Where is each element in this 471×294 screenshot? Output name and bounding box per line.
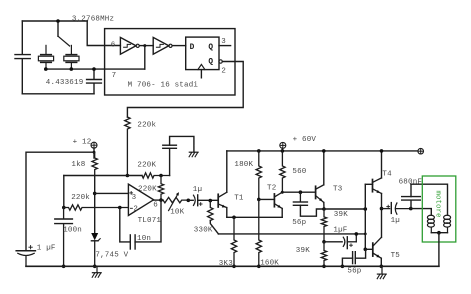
flip-flop U2: [186, 37, 219, 70]
wire T2 base: [259, 198, 275, 200]
inductor coil right: [444, 215, 451, 232]
wire T5 emitter drop: [380, 258, 382, 266]
crystal X2: [64, 45, 79, 69]
capacitor 100n: [55, 208, 73, 267]
node 3K3 ground rail: [232, 265, 236, 269]
svg-text:180K: 180K: [234, 161, 253, 169]
transistor T4: [373, 178, 382, 194]
label T1: [234, 194, 244, 202]
svg-text:+ 60V: + 60V: [293, 136, 317, 144]
label pin 3: [221, 38, 226, 46]
capacitor 56p first: [293, 192, 324, 216]
supply terminal +12: [91, 142, 97, 158]
svg-text:7: 7: [112, 72, 117, 80]
node T4 base leg tap: [364, 207, 368, 211]
node T5 base: [364, 248, 368, 252]
svg-text:+ 12: + 12: [73, 138, 92, 146]
label 160K: [260, 259, 279, 267]
label T5: [391, 252, 401, 260]
wire coil bottoms join: [431, 232, 447, 234]
resistor 220K feedback horizontal: [142, 173, 170, 178]
label 10K: [170, 209, 184, 217]
resistor 39K first: [321, 209, 326, 242]
svg-text:T2: T2: [267, 185, 276, 193]
resistor 3K3: [231, 217, 236, 266]
label 10n: [137, 235, 151, 243]
label + 60V: [293, 136, 317, 144]
node B feedback: [159, 174, 163, 178]
label D: [190, 44, 195, 52]
wire switch pole drop: [57, 21, 59, 36]
wire emitter node to T4 base leg: [324, 208, 365, 210]
wire 680nF top to coil R: [411, 184, 448, 215]
wire T3 emitter drop: [323, 203, 325, 210]
inverter U1a: [120, 37, 139, 54]
label 100n: [63, 227, 82, 235]
label 1u output: [391, 217, 400, 225]
label 39K first: [334, 211, 348, 219]
resistor 1k8: [92, 152, 97, 175]
wire ground rail: [26, 265, 439, 267]
svg-text:680nF: 680nF: [399, 178, 423, 186]
label motore: [434, 190, 442, 217]
svg-text:39K: 39K: [296, 247, 310, 255]
svg-text:6: 6: [111, 41, 116, 49]
wire T2 emitter drop: [281, 209, 283, 218]
svg-text:1k8: 1k8: [71, 161, 85, 169]
svg-text:1 µF: 1 µF: [37, 244, 56, 252]
node 100n ground rail: [62, 265, 66, 269]
label T4: [382, 171, 392, 179]
opamp plus mark: [130, 192, 133, 195]
label 220k upper: [137, 121, 156, 129]
wire emitter bus T1-T2: [227, 216, 282, 218]
flip-flop clock triangle: [198, 64, 205, 69]
svg-text:3,2768MHz: 3,2768MHz: [72, 15, 114, 23]
wire node A: [64, 175, 142, 177]
resistor 220k from FF: [125, 117, 130, 176]
capacitor 56p second: [342, 249, 365, 266]
wire T1 emitter drop: [226, 208, 228, 218]
svg-text:10K: 10K: [170, 209, 184, 217]
wire T2 collector to T3 base: [282, 191, 315, 193]
node crystal X2 bottom: [70, 67, 74, 71]
wire capacitor C1 to bottom: [21, 59, 23, 94]
transistor T5: [373, 237, 382, 258]
wire pin6 feed: [87, 21, 120, 46]
wire feedback to pin7 bus: [144, 46, 146, 70]
output terminal: [418, 148, 424, 154]
svg-text:T1: T1: [234, 194, 244, 202]
capacitor 1u output: [382, 203, 411, 215]
green motor box: [422, 176, 456, 242]
resistor 180K: [256, 151, 261, 200]
label pin 2: [221, 67, 226, 75]
node +12 branch: [93, 151, 96, 154]
svg-text:3: 3: [132, 194, 137, 202]
label TL071: [138, 217, 162, 225]
svg-text:1µ: 1µ: [391, 217, 400, 225]
node 39K ground rail: [322, 265, 326, 269]
node zener ground rail: [93, 265, 97, 269]
svg-text:56p: 56p: [347, 267, 361, 275]
node feedback junction: [143, 44, 146, 47]
label 1 uF: [37, 244, 56, 252]
capacitor 1uF bootstrap: [324, 234, 356, 249]
transistor T2: [274, 192, 282, 208]
label 1u coupling: [193, 186, 202, 194]
node T2 collector: [281, 191, 284, 194]
svg-text:220k: 220k: [71, 194, 90, 202]
node +input ref: [93, 192, 97, 196]
node 56p tap: [299, 190, 303, 194]
resistor 220K feedback vertical: [158, 176, 163, 201]
label 3K3: [219, 260, 233, 268]
node 560 rail tap: [281, 149, 285, 153]
svg-text:3: 3: [221, 38, 226, 46]
svg-text:TL071: TL071: [138, 217, 162, 225]
pot wiper arrow: [169, 192, 179, 210]
svg-text:2: 2: [133, 206, 138, 214]
supply rail +60V: [227, 150, 418, 152]
node 1uF bootstrap tap: [322, 240, 326, 244]
svg-text:220K: 220K: [137, 161, 156, 169]
node 160K ground rail: [257, 265, 261, 269]
resistor 220k lower: [64, 205, 129, 210]
wire coil junction to ground rail: [438, 233, 440, 267]
wire node A down-leg: [63, 176, 65, 208]
wire opamp output: [154, 199, 163, 201]
wire T4 collector to rail: [381, 151, 383, 178]
node switch pole: [56, 19, 60, 23]
svg-text:M 706- 16 stadi: M 706- 16 stadi: [128, 81, 199, 89]
wire T3 collector to rail: [323, 151, 325, 185]
node pot out: [187, 199, 191, 203]
node output cap tap: [380, 207, 384, 211]
label opamp pin 2: [133, 206, 138, 214]
node cap C2 tap: [92, 67, 96, 71]
node 180K rail tap: [257, 149, 261, 153]
node 220k to node A: [126, 174, 130, 178]
svg-text:1µF: 1µF: [333, 226, 347, 234]
ground at T5: [377, 266, 386, 278]
capacitor 10n loop: [120, 200, 161, 249]
label Qbar: [208, 59, 213, 67]
label 56p first: [292, 219, 306, 227]
wire U1b to D input: [172, 45, 186, 47]
resistor 160K: [256, 199, 261, 266]
zener D1: [91, 233, 100, 266]
label + 12: [73, 138, 92, 146]
wire T4 base leg: [364, 184, 366, 249]
label pin 6: [111, 41, 116, 49]
node minus input left: [62, 206, 66, 210]
label opamp pin 6: [153, 201, 158, 209]
opamp minus mark: [130, 207, 132, 209]
label 330K: [194, 226, 213, 234]
ground mid: [92, 266, 101, 277]
wire U1a to U1b: [139, 45, 153, 47]
label 220K feedback v: [138, 185, 157, 193]
svg-text:100n: 100n: [63, 227, 82, 235]
resistor 39K second: [321, 242, 326, 266]
capacitor C2 on pin7 bus: [87, 69, 102, 94]
inverter U1b: [153, 37, 172, 54]
label 560: [292, 168, 306, 176]
label 4.433619: [46, 79, 84, 87]
transistor T3: [316, 185, 324, 203]
label 56p second: [347, 267, 361, 275]
capacitor comp to ground: [163, 136, 194, 175]
wire oscillator bottom: [22, 93, 94, 95]
label Q: [208, 44, 213, 52]
ground near comp cap: [189, 152, 198, 157]
capacitor 680nF: [402, 184, 421, 208]
node 680nF tap: [409, 207, 413, 211]
node T3 collector rail tap: [322, 149, 326, 153]
node T4 rail tap: [380, 149, 384, 153]
label 1k8: [71, 161, 85, 169]
label 220k lower: [71, 194, 90, 202]
svg-text:T4: T4: [382, 171, 392, 179]
svg-text:7,745 V: 7,745 V: [95, 252, 128, 260]
node bootstrap rail tap: [355, 232, 359, 236]
wire left vertical to capacitor: [21, 21, 23, 54]
capacitor C1 left: [15, 55, 30, 59]
node coil junction: [437, 231, 441, 235]
wire bias rail: [218, 233, 365, 235]
svg-text:560: 560: [292, 168, 306, 176]
wire +12 to reservoir cap: [26, 152, 94, 250]
svg-text:1µ: 1µ: [193, 186, 202, 194]
label 680nF: [399, 178, 423, 186]
label 39K second: [296, 247, 310, 255]
crystal X1: [38, 45, 53, 69]
label T3: [333, 185, 343, 193]
node output junction: [159, 198, 163, 202]
inductor coil left: [427, 215, 434, 232]
svg-text:10n: 10n: [137, 235, 151, 243]
label pin 7: [112, 72, 117, 80]
supply terminal +60V: [280, 142, 286, 151]
svg-text:Q: Q: [208, 59, 213, 67]
transistor T1: [218, 192, 227, 207]
pin 2 bubble: [219, 60, 222, 63]
svg-text:T5: T5: [391, 252, 401, 260]
svg-text:motore: motore: [434, 190, 442, 217]
label 1uF bootstrap: [333, 226, 347, 234]
svg-text:T3: T3: [333, 185, 343, 193]
svg-text:330K: 330K: [194, 226, 213, 234]
wire T4 base: [365, 183, 372, 185]
wire output cap to coil L: [411, 209, 432, 216]
capacitor 1uF reservoir: [16, 246, 35, 267]
wire T1 collector to +60 rail: [226, 151, 228, 192]
node T5 emitter ground rail: [380, 265, 384, 269]
node 56p ground rail: [341, 265, 345, 269]
node T3 emitter junction: [322, 207, 326, 211]
svg-text:4.433619: 4.433619: [46, 79, 84, 87]
op-amp U3 TL071: [128, 184, 153, 215]
wire clock stub: [200, 70, 202, 78]
wire pin 3 stub: [219, 45, 231, 47]
capacitor 1u coupling: [194, 195, 219, 206]
svg-text:220k: 220k: [137, 121, 156, 129]
node bias rail end: [364, 233, 367, 236]
switch SW1 arm: [58, 36, 70, 46]
svg-text:6: 6: [153, 201, 158, 209]
wire pot to cap: [188, 199, 193, 201]
wire pin7 crystal bus: [46, 68, 145, 70]
potentiometer 10K: [163, 197, 188, 202]
label 7,745 V: [95, 252, 128, 260]
resistor 330K: [208, 201, 219, 234]
wire 1k8 to zener: [94, 176, 96, 233]
IC box M 706- 16 stadi: [105, 29, 235, 95]
wire T4 emitter to T5 collector: [381, 194, 383, 238]
label 220K feedback h: [137, 161, 156, 169]
label T2: [267, 185, 276, 193]
resistor 560: [280, 151, 285, 192]
node T1 base junction: [209, 199, 213, 203]
wire +input: [95, 192, 129, 194]
node crystal X1 bottom: [44, 67, 48, 71]
node 10n tap: [118, 206, 122, 210]
svg-text:39K: 39K: [334, 211, 348, 219]
node 3K3 tap: [232, 216, 236, 220]
wire oscillator top rail: [22, 20, 87, 22]
label 3,2768MHz: [72, 15, 114, 23]
label 180K: [234, 161, 253, 169]
svg-text:Q: Q: [208, 44, 213, 52]
wire pin 2 to divider: [127, 62, 243, 118]
svg-text:2: 2: [221, 67, 226, 75]
label opamp pin 3: [132, 194, 137, 202]
svg-text:56p: 56p: [292, 219, 306, 227]
wire T5 base: [365, 248, 373, 250]
label M 706- 16 stadi: [128, 81, 199, 89]
node T2 base: [257, 198, 261, 202]
svg-text:D: D: [190, 44, 195, 52]
